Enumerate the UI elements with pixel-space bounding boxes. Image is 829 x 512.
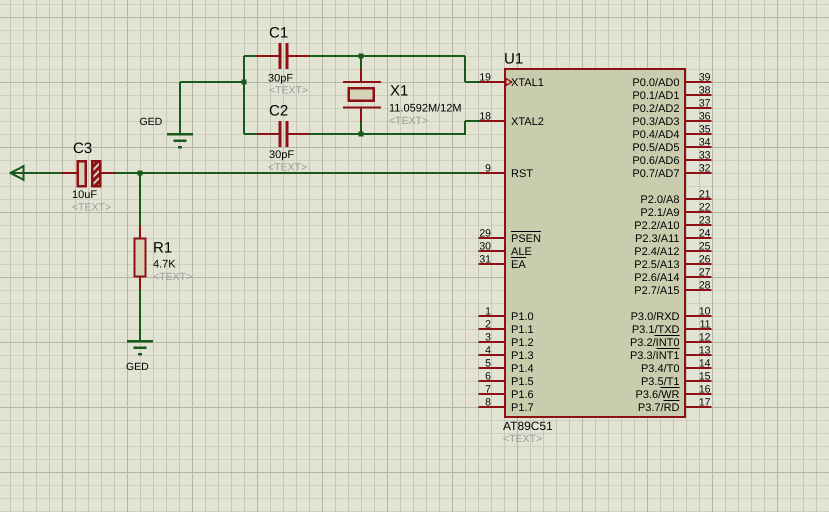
svg-text:P3.5/T1: P3.5/T1 <box>641 376 680 388</box>
svg-text:P0.4/AD4: P0.4/AD4 <box>632 129 679 141</box>
svg-text:5: 5 <box>485 358 491 370</box>
svg-text:P1.4: P1.4 <box>511 363 534 375</box>
svg-text:11: 11 <box>700 319 711 331</box>
svg-text:<TEXT>: <TEXT> <box>268 162 307 174</box>
svg-text:XTAL2: XTAL2 <box>511 116 544 128</box>
svg-text:13: 13 <box>699 345 711 357</box>
svg-text:<TEXT>: <TEXT> <box>153 271 192 283</box>
svg-text:GED: GED <box>140 116 163 128</box>
svg-text:23: 23 <box>699 215 711 227</box>
svg-text:P2.5/A13: P2.5/A13 <box>634 259 679 271</box>
svg-text:P0.5/AD5: P0.5/AD5 <box>632 142 679 154</box>
svg-text:4: 4 <box>485 345 491 357</box>
svg-text:35: 35 <box>699 124 711 136</box>
svg-text:36: 36 <box>699 111 711 123</box>
svg-text:P1.5: P1.5 <box>511 376 534 388</box>
svg-text:XTAL1: XTAL1 <box>511 77 544 89</box>
svg-text:<TEXT>: <TEXT> <box>269 85 308 97</box>
svg-text:R1: R1 <box>153 240 172 257</box>
svg-text:7: 7 <box>485 384 491 396</box>
svg-text:P1.3: P1.3 <box>511 350 534 362</box>
svg-text:P0.2/AD2: P0.2/AD2 <box>632 103 679 115</box>
svg-text:17: 17 <box>699 397 711 409</box>
svg-text:P0.0/AD0: P0.0/AD0 <box>632 77 679 89</box>
svg-text:8: 8 <box>485 397 491 409</box>
svg-text:21: 21 <box>699 189 711 201</box>
svg-text:P2.6/A14: P2.6/A14 <box>634 272 679 284</box>
svg-text:11.0592M/12M: 11.0592M/12M <box>389 103 462 115</box>
svg-text:AT89C51: AT89C51 <box>503 419 553 433</box>
svg-text:29: 29 <box>479 228 491 240</box>
svg-text:18: 18 <box>479 111 491 123</box>
svg-text:C3: C3 <box>73 140 92 157</box>
svg-text:38: 38 <box>699 85 711 97</box>
svg-text:28: 28 <box>699 280 711 292</box>
svg-text:PSEN: PSEN <box>511 233 541 245</box>
svg-text:10uF: 10uF <box>72 189 97 201</box>
svg-text:30pF: 30pF <box>268 73 293 85</box>
svg-text:P3.2/INT0: P3.2/INT0 <box>630 337 680 349</box>
svg-text:P1.0: P1.0 <box>511 311 534 323</box>
svg-text:P3.7/RD: P3.7/RD <box>638 402 680 414</box>
svg-text:P0.1/AD1: P0.1/AD1 <box>632 90 679 102</box>
svg-text:ALE: ALE <box>511 246 532 258</box>
svg-text:1: 1 <box>485 306 491 318</box>
svg-text:24: 24 <box>699 228 711 240</box>
svg-text:<TEXT>: <TEXT> <box>503 433 542 445</box>
svg-text:15: 15 <box>699 371 711 383</box>
svg-text:<TEXT>: <TEXT> <box>72 202 111 214</box>
svg-text:33: 33 <box>699 150 711 162</box>
svg-text:P2.4/A12: P2.4/A12 <box>634 246 679 258</box>
svg-text:P3.6/WR: P3.6/WR <box>635 389 679 401</box>
svg-text:P2.3/A11: P2.3/A11 <box>635 233 679 245</box>
svg-text:16: 16 <box>699 384 711 396</box>
svg-text:X1: X1 <box>390 83 408 100</box>
svg-text:22: 22 <box>699 202 711 214</box>
svg-text:14: 14 <box>699 358 711 370</box>
svg-text:3: 3 <box>485 332 491 344</box>
svg-text:<TEXT>: <TEXT> <box>389 115 428 127</box>
svg-text:27: 27 <box>699 267 711 279</box>
svg-text:4.7K: 4.7K <box>153 259 176 271</box>
svg-text:P0.3/AD3: P0.3/AD3 <box>632 116 679 128</box>
svg-text:19: 19 <box>479 72 491 84</box>
svg-text:30: 30 <box>479 241 491 253</box>
svg-text:39: 39 <box>699 72 711 84</box>
svg-text:25: 25 <box>699 241 711 253</box>
svg-text:P0.6/AD6: P0.6/AD6 <box>632 155 679 167</box>
svg-text:P3.4/T0: P3.4/T0 <box>641 363 680 375</box>
svg-text:6: 6 <box>485 371 491 383</box>
svg-text:C2: C2 <box>269 103 288 120</box>
svg-text:P2.0/A8: P2.0/A8 <box>640 194 679 206</box>
svg-text:P1.6: P1.6 <box>511 389 534 401</box>
svg-text:P3.3/INT1: P3.3/INT1 <box>630 350 680 362</box>
svg-text:GED: GED <box>126 361 149 373</box>
svg-text:P2.2/A10: P2.2/A10 <box>634 220 679 232</box>
svg-text:P2.1/A9: P2.1/A9 <box>640 207 679 219</box>
svg-text:C1: C1 <box>269 25 288 42</box>
svg-text:32: 32 <box>699 163 711 175</box>
svg-text:30pF: 30pF <box>269 149 294 161</box>
svg-text:12: 12 <box>699 332 711 344</box>
svg-text:RST: RST <box>511 168 533 180</box>
svg-text:EA: EA <box>511 259 526 271</box>
svg-text:9: 9 <box>485 163 491 175</box>
svg-text:P1.2: P1.2 <box>511 337 534 349</box>
svg-text:10: 10 <box>699 306 711 318</box>
svg-text:34: 34 <box>699 137 711 149</box>
svg-text:26: 26 <box>699 254 711 266</box>
svg-text:P1.1: P1.1 <box>511 324 534 336</box>
svg-text:P0.7/AD7: P0.7/AD7 <box>632 168 679 180</box>
svg-text:P3.1/TXD: P3.1/TXD <box>632 324 680 336</box>
svg-text:P2.7/A15: P2.7/A15 <box>634 285 679 297</box>
svg-text:31: 31 <box>479 254 491 266</box>
svg-text:2: 2 <box>485 319 491 331</box>
svg-text:37: 37 <box>699 98 711 110</box>
svg-text:P1.7: P1.7 <box>511 402 534 414</box>
svg-text:U1: U1 <box>504 51 523 68</box>
svg-text:P3.0/RXD: P3.0/RXD <box>631 311 680 323</box>
